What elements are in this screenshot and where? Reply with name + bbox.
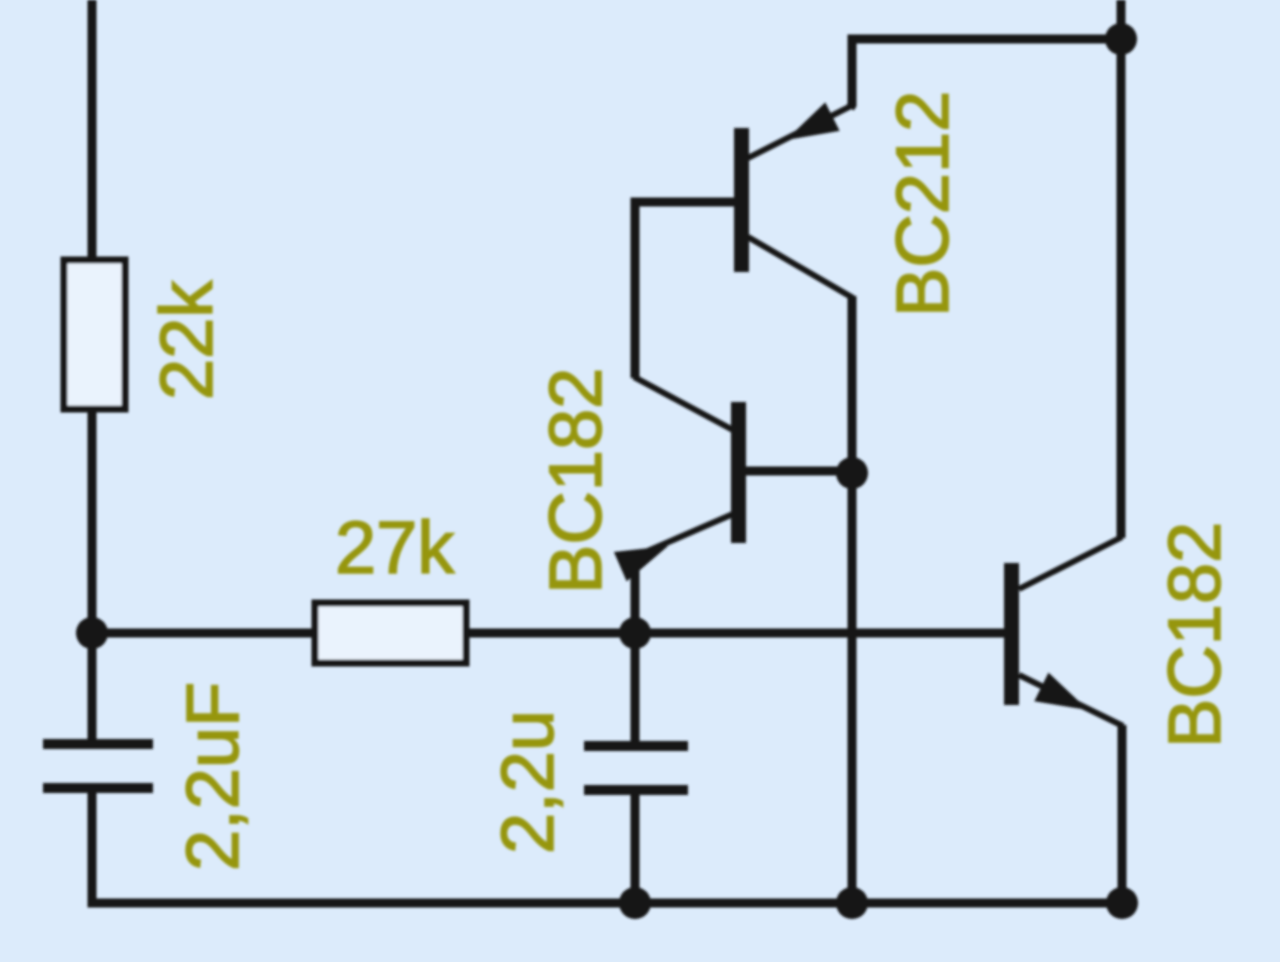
wire Q2 emitter vertical down to node A [631, 556, 640, 633]
transistor Q1 BC212 emitter arrow (PNP, points toward base) [779, 102, 840, 154]
wire C2 bottom plate down to ground rail [631, 792, 640, 903]
wire node A down to C2 top plate [631, 633, 640, 743]
svg-text:BC182: BC182 [534, 368, 617, 594]
wire Q2 emitter diagonal [634, 514, 733, 557]
wire top-left vertical into R1 [88, 0, 97, 262]
svg-text:22k: 22k [145, 280, 228, 400]
wire R2 right lead through node A to Q3 base [466, 629, 1004, 638]
transistor Q1 BC212 base bar [734, 128, 749, 272]
wire Q3 collector vertical from top edge down [1117, 0, 1126, 538]
svg-text:2,2uF: 2,2uF [171, 682, 254, 871]
transistor Q2 BC182 emitter arrow (NPN, points away from base) [614, 531, 674, 581]
transistor Q3 BC182 base bar [1004, 563, 1019, 705]
wire bottom ground rail [92, 899, 1122, 903]
capacitor C2 top plate [584, 741, 688, 751]
wire node B down to ground rail [848, 473, 857, 903]
wire Q1 emitter diagonal [748, 106, 851, 158]
wire C1 bottom plate down to ground rail corner [88, 790, 97, 899]
wire node A1 to R2 left lead [92, 629, 318, 638]
wire Q2 base to node B [744, 467, 852, 476]
node junction dot B (Q1 collector/Q2 base) [836, 457, 868, 489]
node junction dot ground-C2 [619, 887, 651, 919]
capacitor C2 bottom plate [584, 785, 688, 795]
svg-text:2,2u: 2,2u [486, 710, 569, 854]
node junction dot ground-B [836, 887, 868, 919]
node junction dot A (27k/Q2 emitter/C2/Q3 base) [619, 617, 651, 649]
node junction dot ground-Q3 emitter [1106, 887, 1138, 919]
svg-text:27k: 27k [335, 506, 455, 589]
capacitor C1 bottom plate [43, 783, 153, 793]
svg-text:BC212: BC212 [881, 91, 964, 317]
resistor R2 27k body [315, 603, 466, 663]
wire Q2 collector diagonal [634, 377, 733, 430]
transistor Q3 BC182 emitter arrow (NPN, points away from base) [1034, 673, 1095, 725]
wire Q2 collector vertical up and over to Q1 base [635, 202, 735, 378]
wire Q3 collector diagonal [1019, 537, 1122, 589]
wire Q3 emitter vertical down to ground rail [1118, 725, 1127, 903]
wire R1 bottom to node A1 [88, 409, 97, 633]
wire Q1 collector diagonal [748, 237, 853, 298]
svg-text:BC182: BC182 [1153, 522, 1236, 748]
node junction dot A1 (22k/27k/C1) [76, 617, 108, 649]
wire Q1 collector vertical down to node B [848, 296, 857, 473]
wire Q1 emitter corner up to top rail node T [850, 39, 1121, 108]
transistor Q2 BC182 base bar [731, 402, 746, 543]
capacitor C1 top plate [43, 739, 153, 749]
node junction dot T (top rail/Q3 collector) [1105, 23, 1137, 55]
wire node A1 down to C1 top plate [88, 633, 97, 741]
wire Q3 emitter diagonal [1019, 675, 1123, 726]
resistor R1 22k body [64, 260, 125, 409]
